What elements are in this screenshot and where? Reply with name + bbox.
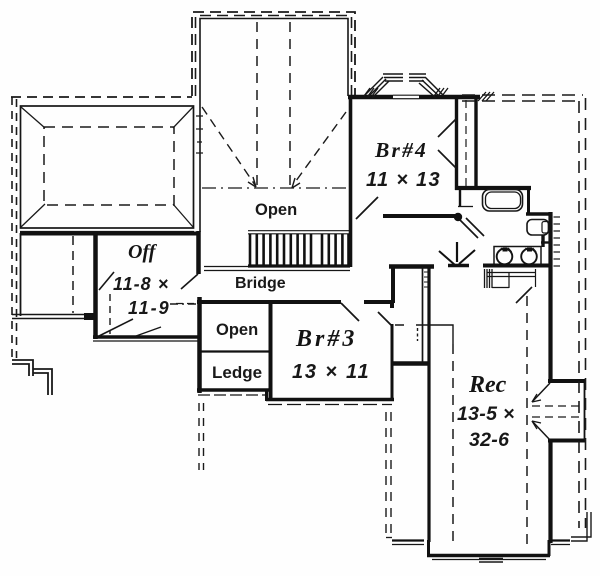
svg-text:Bridge: Bridge bbox=[235, 275, 286, 292]
bathroom top wall bbox=[455, 186, 531, 190]
stairs top double edge bbox=[248, 230, 350, 232]
Br#3 top wall segment bbox=[364, 300, 394, 304]
garage roof hip diagonal SW bbox=[21, 204, 45, 227]
bridge left wall bbox=[196, 231, 201, 274]
right outer overhang dashed top double line bbox=[462, 94, 583, 96]
bathroom step wall bbox=[526, 212, 552, 216]
left small room bottom double line bbox=[12, 314, 97, 316]
Rec right notch bottom wall bbox=[548, 439, 586, 443]
Br#4 entry door leaf bbox=[356, 197, 378, 219]
open area dash-dot break line bbox=[202, 187, 346, 189]
linen shelves lines bbox=[487, 272, 536, 274]
Rec left wall inner line bbox=[422, 267, 424, 362]
svg-text:Open: Open bbox=[255, 201, 297, 219]
bay corner hatch left bbox=[364, 88, 378, 96]
hall railing thin line bbox=[395, 325, 453, 344]
svg-text:Off: Off bbox=[128, 241, 158, 263]
Rec right notch top wall bbox=[548, 379, 586, 383]
divider between Open and Ledge bbox=[201, 350, 269, 352]
left outer overhang dashed top line bbox=[11, 96, 192, 98]
two-story open area dashed overhang outline (outer) bbox=[192, 12, 355, 96]
lower-left overhang dashed corner 2 bbox=[33, 369, 52, 395]
Rec bottom-left double step line bbox=[392, 539, 424, 541]
wall between Ledge and Br#3 bbox=[269, 302, 273, 400]
svg-text:13 × 11: 13 × 11 bbox=[292, 361, 370, 383]
Ledge bottom outer thin line bbox=[198, 394, 266, 396]
tick marks in wall cavity bbox=[417, 328, 419, 341]
bay window right slant triple bbox=[425, 77, 444, 96]
bay window top triple (left pane) bbox=[383, 73, 403, 75]
closet left wall bbox=[391, 265, 395, 303]
closet top wall bbox=[389, 264, 434, 269]
stairs treads bbox=[250, 234, 349, 265]
bridge floor double line bbox=[204, 266, 248, 268]
linen shelves hatch block bbox=[485, 269, 493, 288]
Br#4 closet door leaf upper bbox=[438, 119, 456, 137]
garage roof hip diagonal SE bbox=[173, 204, 193, 227]
stairs bottom thick edge bbox=[248, 264, 350, 267]
Br#4 bay window sill opening bbox=[393, 95, 419, 99]
bay corner hatch right bbox=[434, 88, 448, 96]
Rec bottom step right wall bbox=[548, 540, 551, 556]
lower-left overhang dashed corner 1 bbox=[12, 360, 33, 376]
Br#3 right wall upper stub bbox=[390, 300, 394, 308]
svg-text:32-6: 32-6 bbox=[469, 429, 509, 451]
Rec bottom outer thin line bbox=[432, 559, 546, 561]
Br#4 closet door leaf lower bbox=[438, 150, 456, 168]
Off room dashed line vertical bbox=[109, 294, 111, 334]
sink 1 bbox=[497, 249, 513, 265]
Br#3 bottom wall bbox=[266, 398, 394, 402]
Off room bottom wall bbox=[93, 335, 200, 338]
bathtub inner bbox=[486, 192, 521, 209]
Rec interior dashed line 1 bbox=[452, 344, 454, 544]
bathtub outer bbox=[483, 190, 523, 212]
Off room door leaf lower-left bbox=[99, 319, 133, 336]
Br#4 right cavity wall inner line bbox=[455, 99, 458, 190]
hatch right of Br#4 top wall end bbox=[478, 92, 494, 101]
open area ceiling dashed vertical line 1 bbox=[256, 22, 258, 185]
hall junction dot bbox=[454, 213, 462, 221]
Off room top wall bbox=[20, 232, 200, 236]
svg-text:11-9: 11-9 bbox=[128, 298, 171, 318]
svg-text:Open: Open bbox=[216, 321, 258, 339]
garage roof hip diagonal NE bbox=[173, 107, 193, 128]
Off room bottom outer thin line bbox=[93, 340, 198, 342]
svg-text:13-5 ×: 13-5 × bbox=[457, 403, 515, 425]
knee wall by tub bbox=[459, 190, 461, 207]
garage roof hip diagonal NW bbox=[21, 107, 45, 128]
Br#3 entry door leaf bbox=[341, 303, 359, 321]
Br#4 bottom wall bbox=[383, 214, 459, 218]
toilet bowl bbox=[527, 220, 549, 236]
Br#4 right cavity wall outer line bbox=[474, 99, 477, 188]
open area ceiling dashed vertical line 2 bbox=[289, 22, 291, 186]
Br#3 right wall door leaf bbox=[378, 312, 392, 326]
svg-text:Ledge: Ledge bbox=[212, 363, 262, 382]
ticks on open structure left wall bbox=[196, 116, 203, 153]
Rec vault marker diagonal lower bbox=[532, 421, 550, 440]
Rec vault marker diagonal upper bbox=[532, 383, 550, 402]
toilet tank bbox=[542, 222, 549, 234]
bay window left slant triple bbox=[364, 77, 383, 96]
garage roof ridge inner dashed rectangle bbox=[44, 127, 174, 205]
wall cavity ticks bbox=[424, 272, 428, 287]
Off room dash-dot line bbox=[170, 303, 197, 305]
Rec bottom-right double line bbox=[551, 539, 570, 541]
bottom-right overhang corner piece bbox=[571, 512, 591, 541]
open/ledge block left wall bbox=[197, 297, 202, 393]
Rec vault dashed line B bbox=[532, 416, 584, 418]
dashed corner bottom-left of Rec bbox=[386, 537, 392, 539]
Rec vault dashed line A bbox=[532, 405, 584, 407]
Rec bottom center detail bbox=[479, 558, 503, 560]
closet end cap wall bbox=[392, 361, 430, 365]
dash remnant left of open block bbox=[176, 303, 196, 305]
toilet partition vertical bbox=[541, 235, 544, 247]
Off room door leaf lower-mid bbox=[136, 327, 161, 336]
svg-text:11-8 ×: 11-8 × bbox=[113, 274, 169, 294]
vanity counter outline bbox=[494, 247, 541, 266]
Br#3 right wall bbox=[391, 324, 394, 401]
Rec right notch right wall bbox=[584, 381, 586, 441]
bathroom/Rec right wall bbox=[548, 212, 552, 382]
bathroom right wall upper bbox=[527, 187, 530, 214]
Br#4 top wall bbox=[348, 95, 480, 100]
left outer overhang dashed vertical double line bbox=[11, 97, 13, 360]
Rec bottom step left wall bbox=[427, 540, 430, 556]
right outer overhang dashed vertical double line bbox=[578, 101, 580, 528]
wall between open structure and Br#4 / stairs right wall bbox=[349, 95, 353, 267]
open area slope diagonal with arrow (left) bbox=[202, 107, 255, 185]
toilet partition horizontal bbox=[541, 241, 552, 243]
Off room door leaf upper-left bbox=[99, 272, 114, 290]
garage roof eave double bottom line bbox=[20, 231, 194, 233]
stair direction arrow bbox=[456, 242, 458, 262]
Rec bottom wall bbox=[427, 554, 550, 558]
svg-text:Br#3: Br#3 bbox=[295, 326, 357, 352]
garage roof outer outline bbox=[21, 106, 194, 228]
bay window top triple (right pane) bbox=[409, 73, 426, 75]
svg-text:Br#4: Br#4 bbox=[374, 138, 428, 162]
bridge door leaf bbox=[181, 274, 198, 289]
Off room left wall bbox=[93, 232, 98, 339]
sink 2 bbox=[521, 249, 537, 265]
Rec interior dashed line 2 bbox=[526, 296, 528, 544]
vanity front wall bbox=[483, 264, 552, 268]
step between Ledge and Br#3 bottom walls bbox=[265, 390, 268, 401]
open area slope diagonal with arrow (right) bbox=[293, 112, 346, 185]
Ledge bottom wall bbox=[197, 388, 270, 392]
Rec right wall lower bbox=[548, 440, 552, 543]
open/ledge block top wall bbox=[197, 300, 341, 304]
left small room dashed divider bbox=[72, 236, 74, 313]
bathroom door leaf bbox=[516, 287, 532, 303]
Rec left wall outer line bbox=[427, 267, 430, 542]
hatch ticks outside right wall bbox=[554, 217, 561, 266]
dashed overhang below Br#3 (double) bbox=[385, 412, 387, 535]
left small room left wall bbox=[20, 233, 22, 316]
dashed overhang below Ledge (double) bbox=[198, 403, 200, 470]
two-story open area wall (thin solid) bbox=[200, 19, 348, 233]
svg-text:Rec: Rec bbox=[468, 372, 507, 398]
svg-text:11 × 13: 11 × 13 bbox=[366, 169, 441, 191]
bathroom door leaves double diagonal bbox=[460, 220, 478, 238]
two-story open area dashed overhang outline (inner) bbox=[196, 16, 352, 97]
Br#4 cavity dashed center line bbox=[465, 100, 467, 187]
Br#3 bottom outer thin line bbox=[268, 404, 392, 406]
